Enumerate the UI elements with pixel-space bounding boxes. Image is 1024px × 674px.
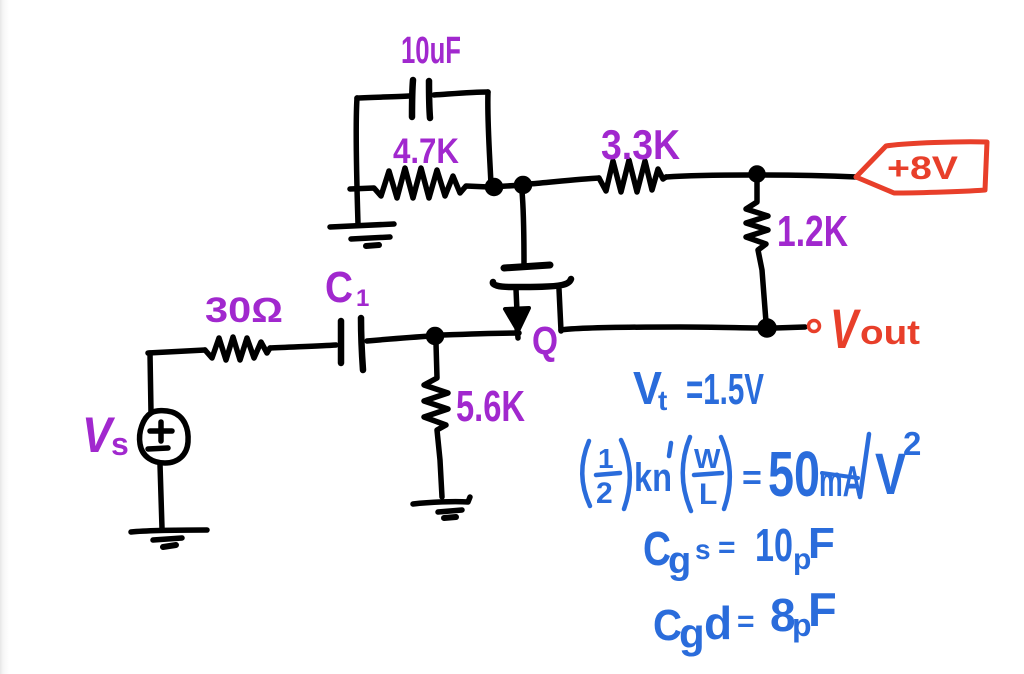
svg-text:5.6K: 5.6K xyxy=(456,382,525,431)
transistor Q (NMOS) xyxy=(493,265,571,338)
svg-text:mA: mA xyxy=(819,457,862,506)
label Vout xyxy=(830,297,920,360)
label 10uF xyxy=(401,30,461,72)
node E junction dot xyxy=(429,330,442,343)
node B junction dot (gate node) xyxy=(517,179,530,192)
svg-text:=: = xyxy=(742,459,762,497)
wire left vertical (to ground) xyxy=(356,98,358,224)
svg-text:50: 50 xyxy=(768,438,820,510)
ground G1 (under 4.7K) xyxy=(330,224,394,246)
page left edge shading xyxy=(0,0,9,674)
label Q xyxy=(532,319,558,363)
label 4.7K xyxy=(393,132,459,171)
svg-text:V: V xyxy=(830,297,861,360)
svg-text:3.3K: 3.3K xyxy=(601,121,680,168)
node A junction dot xyxy=(488,181,501,194)
annotation Cgd = 8pF xyxy=(653,583,837,657)
svg-text:1: 1 xyxy=(598,443,614,474)
svg-text:F: F xyxy=(808,519,835,568)
svg-text:C: C xyxy=(643,523,671,576)
ground G2 (under 5.6K) xyxy=(413,497,470,518)
node D junction dot (Vout node) xyxy=(760,321,774,335)
wire node D to Vout terminal xyxy=(775,327,805,328)
resistor R5 5.6K vertical xyxy=(424,343,448,497)
wire Vs bottom vertical xyxy=(160,464,162,528)
svg-text:kn: kn xyxy=(634,456,672,500)
wire gate (node B down to transistor gate) xyxy=(522,191,524,264)
label Vs xyxy=(82,407,129,463)
svg-text:d: d xyxy=(704,597,732,649)
svg-text:10uF: 10uF xyxy=(401,30,461,72)
wire node E to transistor source xyxy=(443,333,519,335)
svg-text:+8V: +8V xyxy=(887,150,959,186)
svg-text:g: g xyxy=(679,610,705,657)
svg-text:2: 2 xyxy=(596,477,613,510)
svg-text:s: s xyxy=(111,426,129,462)
wire node C to +8V flag xyxy=(764,175,857,177)
svg-text:4.7K: 4.7K xyxy=(393,132,459,171)
wire 30ohm to C1 xyxy=(270,345,336,348)
svg-text:F: F xyxy=(808,583,837,636)
svg-text:out: out xyxy=(860,314,920,352)
wire source to output row (drain side horizontal) xyxy=(561,327,762,330)
annotation Vt = 1.5V xyxy=(633,362,764,416)
label 30ohm xyxy=(205,291,283,330)
svg-text:g: g xyxy=(668,540,691,582)
svg-text:W: W xyxy=(694,443,721,474)
label 3.3K xyxy=(601,121,680,168)
svg-text:1.2K: 1.2K xyxy=(777,207,848,256)
wire top-left horizontal (feedback cap left lead) xyxy=(357,96,409,98)
svg-text:2: 2 xyxy=(903,425,921,462)
ground G3 (under Vs) xyxy=(131,530,207,547)
svg-text:s: s xyxy=(695,534,711,565)
resistor R3 3.3K xyxy=(599,160,666,192)
label 5.6K xyxy=(456,382,525,431)
wire node A to node B xyxy=(490,185,524,187)
svg-text:L: L xyxy=(699,478,717,511)
capacitor C2 10uF plates xyxy=(412,80,430,118)
wire right vertical (cap to node A) xyxy=(488,92,491,185)
wire input row left segment xyxy=(148,350,205,353)
resistor R1 30ohm xyxy=(205,337,270,360)
capacitor C1 plates xyxy=(341,318,363,370)
svg-text:=: = xyxy=(737,605,755,638)
svg-text:=1.5V: =1.5V xyxy=(686,365,764,414)
svg-text:30Ω: 30Ω xyxy=(205,291,283,330)
resistor R4 1.2K vertical xyxy=(746,181,768,322)
svg-text:10: 10 xyxy=(755,519,793,571)
resistor R2 4.7K xyxy=(350,168,489,198)
label +8V xyxy=(887,150,959,186)
svg-text:V: V xyxy=(875,442,906,507)
svg-text:Q: Q xyxy=(532,319,558,363)
label 1.2K xyxy=(777,207,848,256)
voltage source Vs xyxy=(140,411,189,463)
svg-text:C: C xyxy=(653,601,682,650)
label C1 xyxy=(325,263,369,312)
svg-text:t: t xyxy=(658,385,667,416)
svg-text:=: = xyxy=(718,531,736,564)
svg-text:C: C xyxy=(325,263,353,312)
wire C1 to node E xyxy=(367,336,432,341)
Vout terminal circle xyxy=(809,321,820,332)
node C junction dot xyxy=(751,168,763,180)
+8V supply flag xyxy=(856,142,987,193)
wire 3.3K to node C xyxy=(666,175,751,177)
annotation (1/2)kn'(W/L)=50mA/V^2 xyxy=(582,434,869,511)
annotation Cgs = 10pF xyxy=(643,519,835,582)
wire top-right horizontal (feedback cap right lead) xyxy=(434,92,488,95)
svg-text:1: 1 xyxy=(356,285,369,312)
wire node B to 3.3K xyxy=(530,178,599,184)
wire Vs top vertical xyxy=(150,353,151,412)
